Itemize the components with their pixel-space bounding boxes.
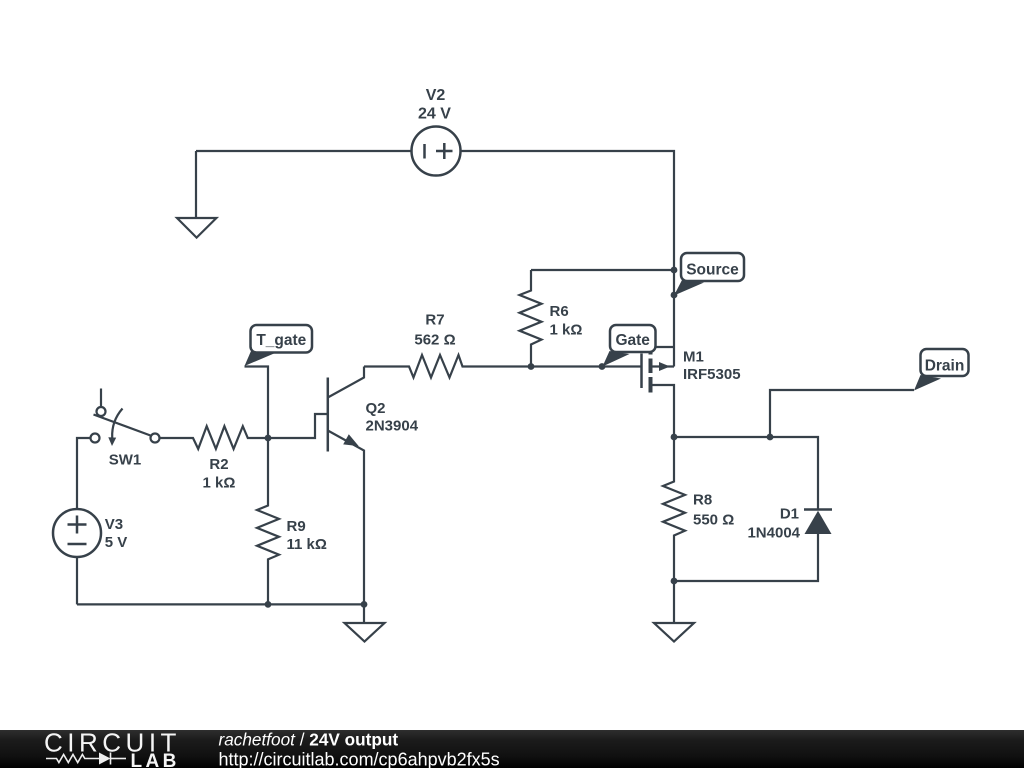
svg-text:Q2: Q2 <box>366 400 386 417</box>
svg-text:24 V: 24 V <box>418 106 451 123</box>
svg-text:Gate: Gate <box>615 332 650 349</box>
svg-text:T_gate: T_gate <box>256 332 306 349</box>
svg-text:rachetfoot / 24V output: rachetfoot / 24V output <box>219 730 399 750</box>
svg-text:M1: M1 <box>683 349 704 366</box>
svg-text:LAB: LAB <box>131 751 180 768</box>
svg-text:1N4004: 1N4004 <box>747 525 800 542</box>
svg-text:D1: D1 <box>780 505 799 522</box>
svg-text:IRF5305: IRF5305 <box>683 366 741 383</box>
svg-text:SW1: SW1 <box>109 452 142 469</box>
svg-text:Drain: Drain <box>925 357 965 374</box>
svg-text:562 Ω: 562 Ω <box>414 332 455 349</box>
svg-text:V2: V2 <box>426 87 446 104</box>
svg-text:550 Ω: 550 Ω <box>693 512 734 529</box>
svg-text:R6: R6 <box>550 303 569 320</box>
svg-text:Source: Source <box>686 262 739 279</box>
svg-text:V3: V3 <box>105 516 123 533</box>
svg-text:R2: R2 <box>209 456 228 473</box>
svg-text:R8: R8 <box>693 492 712 509</box>
svg-text:2N3904: 2N3904 <box>366 418 419 435</box>
svg-text:R9: R9 <box>287 518 306 535</box>
svg-text:11 kΩ: 11 kΩ <box>287 536 327 553</box>
svg-text:http://circuitlab.com/cp6ahpvb: http://circuitlab.com/cp6ahpvb2fx5s <box>219 750 500 768</box>
svg-text:1 kΩ: 1 kΩ <box>550 322 583 339</box>
svg-text:R7: R7 <box>425 312 444 329</box>
svg-text:1 kΩ: 1 kΩ <box>203 475 236 492</box>
svg-text:5 V: 5 V <box>105 534 128 551</box>
